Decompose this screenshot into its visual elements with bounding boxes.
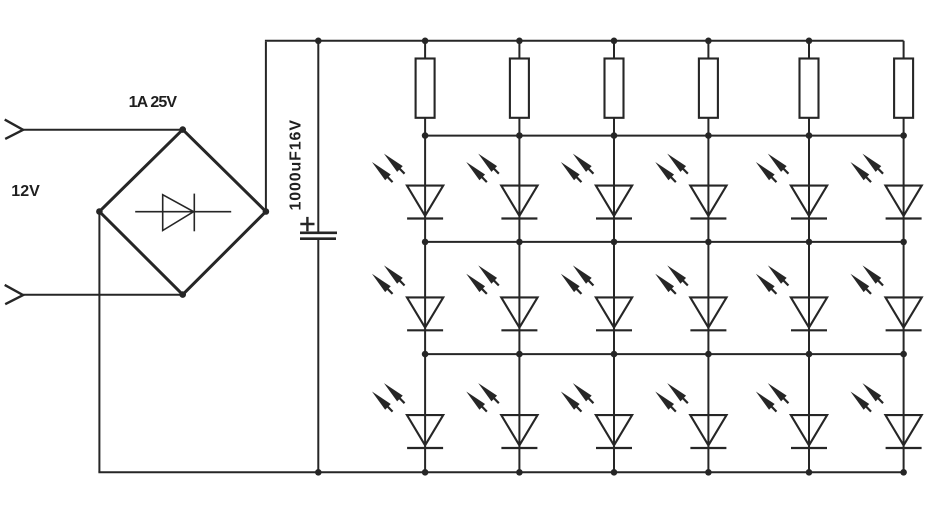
resistor R4	[699, 59, 718, 118]
LED D14	[466, 383, 537, 448]
LED D18	[850, 383, 921, 448]
junction dot rail 2 col 2	[516, 132, 523, 139]
bridge rectifier BR1 diamond outline	[99, 130, 266, 295]
junction dot rail 3 col 4	[705, 239, 712, 246]
junction dot bottom rail col 2	[516, 469, 523, 476]
rail 3 wire (between LED row 1 and 2)	[425, 241, 903, 243]
LED D2	[466, 154, 537, 219]
junction dot rail 3 col 6	[900, 239, 907, 246]
capacitor plus polarity sign	[300, 217, 314, 231]
LED D17	[756, 383, 827, 448]
wire top input to bridge top vertex	[23, 129, 183, 131]
LED D6	[850, 154, 921, 219]
junction dot rail 3 col 1	[422, 239, 429, 246]
LED D9	[561, 265, 632, 330]
input terminal bottom chevron	[5, 285, 23, 304]
wire column 4 vertical	[707, 41, 709, 473]
bottom rail wire	[99, 471, 903, 472]
node bridge left vertex	[96, 208, 103, 215]
node bridge top vertex	[179, 126, 186, 133]
LED D12	[850, 265, 921, 330]
top rail wire	[265, 40, 904, 42]
wire column 6 vertical	[903, 41, 905, 473]
LED D7	[372, 265, 443, 330]
junction dot rail 3 col 2	[516, 239, 523, 246]
input terminal top chevron	[5, 120, 23, 139]
junction dot rail 4 col 3	[611, 351, 618, 358]
LED D1	[372, 154, 443, 219]
LED D8	[466, 265, 537, 330]
LED D3	[561, 154, 632, 219]
LED D11	[756, 265, 827, 330]
junction dot capacitor bottom	[315, 469, 322, 476]
svg-text:12V: 12V	[11, 183, 40, 200]
capacitor C1 bottom plate	[300, 237, 336, 240]
junction dot bottom rail col 3	[611, 469, 618, 476]
junction dot rail 4 col 2	[516, 351, 523, 358]
LED D16	[655, 383, 726, 448]
resistor R2	[510, 59, 529, 118]
junction dot rail 4 col 4	[705, 351, 712, 358]
junction dot rail 2 col 5	[806, 132, 813, 139]
junction dot rail 4 col 5	[806, 351, 813, 358]
capacitor C1 top plate	[300, 232, 337, 235]
junction dot rail 2 col 1	[422, 132, 429, 139]
junction dot capacitor top	[315, 38, 322, 45]
junction dot top rail col 3	[611, 38, 618, 45]
node bridge bottom vertex	[179, 291, 186, 298]
junction dot rail 3 col 3	[611, 239, 618, 246]
svg-text:1000uF16V: 1000uF16V	[287, 120, 304, 211]
wire bridge right vertex up to top rail	[265, 42, 267, 212]
junction dot top rail col 2	[516, 38, 523, 45]
junction dot top rail col 5	[806, 38, 813, 45]
junction dot bottom rail col 5	[806, 469, 813, 476]
wire bottom input to bridge bottom vertex	[23, 294, 183, 296]
resistor R6	[894, 59, 913, 118]
rail 2 wire (below resistors)	[425, 135, 903, 137]
junction dot top rail col 4	[705, 38, 712, 45]
junction dot rail 3 col 5	[806, 239, 813, 246]
LED D10	[655, 265, 726, 330]
wire column 1 vertical	[424, 41, 426, 473]
diode symbol inside bridge: triangle	[163, 195, 194, 231]
resistor R1	[416, 59, 435, 118]
junction dot bottom rail col 4	[705, 469, 712, 476]
wire column 5 vertical	[808, 41, 810, 473]
LED D5	[756, 154, 827, 219]
wire capacitor top branch	[317, 41, 319, 232]
junction dot bottom rail col 1	[422, 469, 429, 476]
resistor R5	[800, 59, 819, 118]
LED D13	[372, 383, 443, 448]
LED D4	[655, 154, 726, 219]
resistor R3	[605, 59, 624, 118]
rail 4 wire (between LED row 2 and 3)	[425, 353, 903, 355]
junction dot rail 2 col 6	[900, 132, 907, 139]
diode symbol inside bridge: anode-cathode line	[135, 211, 231, 213]
wire column 2 vertical	[518, 41, 520, 473]
junction dot rail 2 col 4	[705, 132, 712, 139]
LED D15	[561, 383, 632, 448]
wire column 3 vertical	[613, 41, 615, 473]
junction dot rail 4 col 6	[900, 351, 907, 358]
wire capacitor bottom branch	[317, 240, 319, 472]
junction dot rail 2 col 3	[611, 132, 618, 139]
svg-text:1A 25V: 1A 25V	[129, 94, 178, 111]
node bridge right vertex	[263, 208, 270, 215]
junction dot top rail col 1	[422, 38, 429, 45]
wire bridge left vertex down to bottom rail	[98, 212, 100, 473]
junction dot bottom rail col 6	[900, 469, 907, 476]
junction dot rail 4 col 1	[422, 351, 429, 358]
diode symbol inside bridge: cathode bar	[193, 194, 195, 232]
